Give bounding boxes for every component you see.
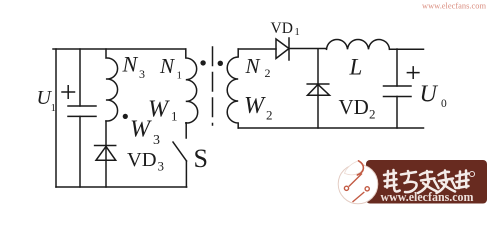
svg-text:www.elecfans.com: www.elecfans.com <box>422 1 486 11</box>
logo flame right edge <box>357 161 363 175</box>
wire N3 to VD3 <box>105 121 107 187</box>
wire VD1 to L <box>289 48 327 50</box>
capacitor C-in stem top <box>79 49 81 106</box>
svg-text:S: S <box>194 144 208 173</box>
svg-text:1: 1 <box>171 109 178 124</box>
svg-text:2: 2 <box>266 107 273 122</box>
svg-text:0: 0 <box>441 98 447 110</box>
svg-text:3: 3 <box>139 67 145 81</box>
capacitor C-in stem bottom <box>79 116 81 187</box>
winding N2 W2 secondary <box>227 49 238 128</box>
svg-text:N: N <box>122 52 139 77</box>
diode VD3 <box>95 146 116 161</box>
capacitor C-out plates <box>384 86 412 97</box>
wire left vertical rail <box>55 49 57 187</box>
svg-text:www.elecfans.com: www.elecfans.com <box>381 190 475 204</box>
svg-text:N: N <box>245 54 261 78</box>
node dot W3 <box>123 114 128 119</box>
diode VD1 <box>276 38 289 60</box>
logo flame <box>345 161 364 175</box>
svg-text:1: 1 <box>51 103 56 114</box>
plus sign input <box>62 86 75 98</box>
capacitor C-out stem bottom <box>396 97 398 129</box>
wire top-left rail <box>53 48 186 50</box>
svg-text:L: L <box>349 54 363 79</box>
watermark box <box>366 160 487 204</box>
svg-text:3: 3 <box>153 133 160 148</box>
node dot N2 <box>218 61 223 66</box>
watermark logo circle <box>338 164 378 204</box>
wire bottom-right rail <box>238 127 423 129</box>
svg-text:W: W <box>148 97 170 123</box>
wire switch to bottom rail <box>185 161 187 187</box>
capacitor C-in plates <box>68 106 96 116</box>
transformer core <box>212 47 214 125</box>
node dot N1 <box>200 60 205 65</box>
inductor L <box>327 40 390 50</box>
diode VD2 <box>307 84 329 95</box>
svg-text:1: 1 <box>295 27 300 38</box>
switch S blade <box>173 142 187 161</box>
svg-text:W: W <box>130 117 152 143</box>
svg-text:VD: VD <box>339 95 369 119</box>
logo traces <box>344 174 369 203</box>
svg-text:W: W <box>244 93 266 119</box>
wire L to output <box>390 48 424 50</box>
svg-text:3: 3 <box>158 159 165 174</box>
plus sign output <box>407 67 419 78</box>
wire N1 to switch <box>185 123 187 138</box>
svg-text:N: N <box>159 54 175 78</box>
svg-text:2: 2 <box>369 107 376 122</box>
watermark CJK calligraphy strokes <box>384 170 469 193</box>
winding N1 W1 primary <box>186 49 198 123</box>
wire secondary top to VD1 <box>238 48 276 50</box>
svg-text:VD: VD <box>127 149 157 171</box>
watermark registered mark <box>469 171 474 176</box>
svg-text:1: 1 <box>177 69 183 81</box>
capacitor C-out stem top <box>396 49 398 86</box>
svg-text:2: 2 <box>265 66 271 80</box>
winding N3 W3 <box>106 49 118 121</box>
wire VD2 branch <box>317 49 319 128</box>
wire bottom-left rail <box>56 186 187 188</box>
svg-text:U: U <box>420 82 439 108</box>
svg-text:VD: VD <box>271 20 293 37</box>
